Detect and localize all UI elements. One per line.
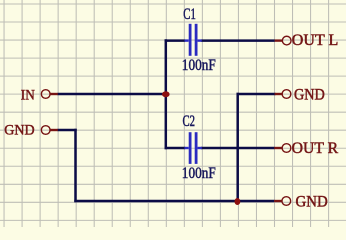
wire xyxy=(74,129,77,202)
svg-text:GND: GND xyxy=(294,86,325,103)
junction at GND bottom node xyxy=(235,198,241,205)
wire xyxy=(74,200,274,203)
port OUT R xyxy=(274,140,339,157)
wire xyxy=(165,147,186,150)
port GND top right xyxy=(275,86,325,103)
svg-text:C1: C1 xyxy=(183,6,196,23)
port GND bottom right xyxy=(274,193,328,210)
wire xyxy=(236,93,239,202)
svg-text:GND: GND xyxy=(4,122,34,139)
wire xyxy=(58,129,77,132)
svg-text:OUT R: OUT R xyxy=(292,140,339,157)
port IN xyxy=(21,86,58,103)
junction at IN node xyxy=(162,91,170,97)
wire xyxy=(201,39,275,42)
wire xyxy=(165,39,168,149)
wire xyxy=(237,93,276,96)
svg-text:C2: C2 xyxy=(183,113,196,130)
svg-text:100nF: 100nF xyxy=(182,165,216,182)
wire xyxy=(58,93,167,96)
svg-text:IN: IN xyxy=(21,86,35,103)
capacitor C2 xyxy=(185,132,202,164)
wire xyxy=(165,39,186,42)
port GND left xyxy=(4,122,58,139)
port OUT L xyxy=(275,32,339,49)
wire xyxy=(201,147,275,150)
svg-text:100nF: 100nF xyxy=(182,57,216,74)
svg-text:OUT L: OUT L xyxy=(292,32,339,49)
svg-text:GND: GND xyxy=(296,193,328,210)
capacitor C1 xyxy=(185,24,202,56)
